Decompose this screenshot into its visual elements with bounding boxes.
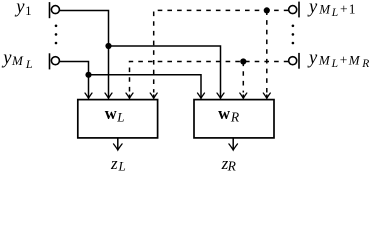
junction on yML+MR wire bbox=[240, 58, 246, 64]
wire yML+1 to wL (dashed) bbox=[154, 10, 289, 92]
block wL bbox=[78, 100, 158, 138]
wire yML to wR bbox=[89, 75, 202, 99]
junction on y1 wire bbox=[105, 43, 111, 49]
svg-text:L: L bbox=[116, 109, 124, 124]
svg-text:w: w bbox=[218, 104, 230, 123]
input terminal yML+MR bbox=[289, 53, 299, 69]
wire yML+MR to wL (dashed) bbox=[130, 62, 289, 93]
block wR bbox=[194, 100, 274, 138]
input terminal yML bbox=[50, 53, 60, 69]
output wire zR bbox=[232, 138, 234, 150]
wire y1 to wL bbox=[60, 11, 109, 99]
svg-text:w: w bbox=[105, 104, 117, 123]
junction on yML+1 wire bbox=[264, 7, 270, 13]
junction on yML wire bbox=[85, 72, 91, 78]
vertical dots left bbox=[55, 25, 58, 45]
wire yML+1 to wR (dashed) bbox=[266, 10, 268, 92]
wire y1 to wR bbox=[109, 46, 221, 98]
wire yML to wL bbox=[60, 62, 89, 99]
input terminal yML+1 bbox=[289, 2, 299, 18]
output wire zL bbox=[117, 138, 119, 150]
input terminal y1 bbox=[50, 2, 60, 18]
wire yML+MR to wR (dashed) bbox=[242, 62, 244, 93]
vertical dots right bbox=[292, 25, 295, 45]
svg-text:R: R bbox=[230, 109, 240, 124]
